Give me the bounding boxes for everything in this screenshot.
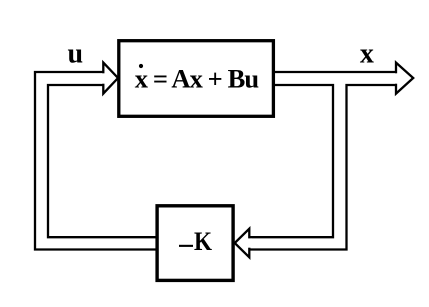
channel gap through input arrowhead back edge [101,73,105,83]
arrowhead at output (x) [396,63,413,94]
wire: outer line of feedback left channel + input shaft top line [35,72,156,250]
wire: lower shaft top line + branch left line + output shaft bottom line left segment [250,85,333,237]
wire: output shaft bottom line right segment + branch right line + lower shaft bottom line [250,85,397,250]
svg-text:x: x [360,38,374,69]
plant box [119,41,274,117]
svg-text:u: u [68,38,84,69]
minus dash of gain label [179,245,193,247]
svg-text:x = Ax + Bu: x = Ax + Bu [135,64,260,94]
gain box [157,206,233,281]
channel gap through output arrowhead back edge [394,73,398,83]
wire: output shaft top line [274,71,397,73]
svg-text:K: K [194,227,213,256]
dot above x of equation [139,64,143,68]
wire: inner line of feedback left channel + input shaft bottom line [48,85,156,237]
arrowhead into gain box -K [235,229,250,258]
channel gap through -K arrowhead back edge [248,238,252,247]
arrowhead into plant (input u) [103,63,118,94]
